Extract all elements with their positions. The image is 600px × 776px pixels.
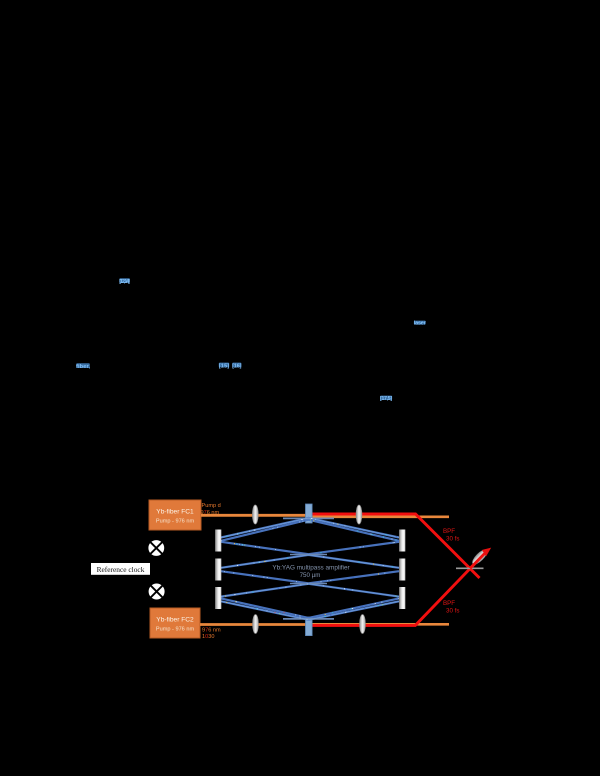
svg-text:Pump - 976 nm: Pump - 976 nm	[156, 627, 195, 633]
svg-text:[12,14]: [12,14]	[119, 279, 130, 285]
svg-text:[16]: [16]	[232, 363, 242, 369]
cavity label	[272, 565, 350, 579]
svg-text:[15]: [15]	[219, 363, 230, 369]
svg-text:Pump - 976 nm: Pump - 976 nm	[156, 519, 195, 525]
output lens (tilted)	[470, 548, 489, 567]
mixer symbol top	[148, 540, 164, 556]
collimating lens top-left	[252, 505, 258, 524]
pump box FC2	[150, 608, 200, 638]
svg-text:1030: 1030	[202, 634, 214, 640]
red beam bottom	[311, 552, 487, 626]
pump label bottom	[202, 628, 221, 641]
hyperlink text 3b	[232, 363, 242, 370]
mirror left 1	[215, 530, 221, 552]
reference clock box	[91, 563, 150, 575]
pump label top	[201, 503, 221, 516]
hyperlink text 2	[76, 363, 90, 370]
mirror right 3	[399, 587, 405, 609]
beam speckle overlay	[221, 518, 399, 620]
fiber top left	[201, 514, 306, 517]
fiber bottom right	[312, 623, 450, 626]
red beam top	[311, 514, 480, 578]
output arrowhead	[482, 548, 491, 557]
gain crystal top	[306, 504, 313, 523]
svg-text:fiber,: fiber,	[76, 364, 90, 370]
collimating lens bottom-left	[253, 615, 259, 634]
mirror left 3	[215, 587, 221, 609]
cavity beams band B	[221, 598, 399, 619]
mixer symbol bottom	[149, 584, 165, 600]
svg-text:BPF: BPF	[443, 600, 455, 607]
focusing lens bottom-right	[360, 615, 366, 634]
svg-text:Pump d: Pump d	[202, 503, 221, 509]
svg-text:30 fs: 30 fs	[446, 608, 459, 615]
svg-text:976 nm: 976 nm	[202, 628, 221, 634]
cavity beams band T	[221, 518, 399, 541]
svg-text:Yb:YAG multipass amplifier: Yb:YAG multipass amplifier	[272, 565, 350, 572]
hyperlink text 4	[414, 321, 427, 327]
cavity beams band mid2	[221, 571, 399, 596]
cavity beams band mid1	[221, 542, 399, 568]
gain crystal bottom	[306, 617, 313, 636]
focusing lens top-right	[356, 505, 362, 524]
mirror right 1	[399, 530, 405, 552]
svg-text:30 fs: 30 fs	[446, 536, 459, 543]
fiber bottom left	[200, 623, 306, 626]
red label top	[443, 528, 459, 543]
svg-text:laser: laser	[414, 321, 427, 327]
fiber top right	[312, 515, 450, 518]
hyperlink text 1	[119, 278, 130, 285]
beam speckle dots	[221, 518, 400, 620]
mirror left 2	[215, 559, 221, 581]
mirror right 2	[399, 559, 405, 581]
svg-text:750 µm: 750 µm	[300, 572, 321, 579]
hyperlink text 3a	[219, 363, 230, 370]
svg-text:Reference clock: Reference clock	[97, 565, 145, 574]
svg-text:[17,5]: [17,5]	[380, 396, 392, 402]
svg-text:Yb-fiber FC1: Yb-fiber FC1	[156, 509, 194, 516]
hyperlink text 5	[380, 396, 392, 402]
output beam through lens	[470, 551, 488, 569]
svg-text:BPF: BPF	[443, 528, 455, 535]
red label bottom	[443, 600, 459, 615]
pump box FC1	[149, 500, 201, 530]
crossing reference line	[456, 567, 484, 569]
svg-text:Yb-fiber FC2: Yb-fiber FC2	[156, 617, 194, 624]
